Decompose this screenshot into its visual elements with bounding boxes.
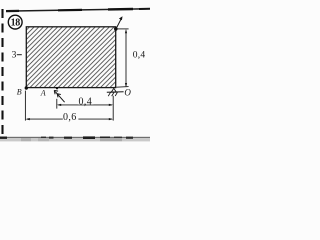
extension tick below A	[56, 99, 58, 109]
pivot dot B	[25, 86, 28, 89]
pin support at O triangle	[111, 88, 116, 92]
page top rule thick segment 2	[108, 8, 133, 11]
arrow left 0.6	[25, 118, 29, 120]
bottom page edge scan bar band	[0, 138, 150, 142]
page top rule	[6, 9, 150, 11]
pin support hatch	[108, 92, 117, 96]
value 0,6	[63, 112, 79, 123]
bottom bar dark segment 5	[83, 136, 95, 139]
svg-text:0,4: 0,4	[133, 51, 146, 61]
impact arrow chevron 1	[54, 90, 58, 94]
arrow up	[125, 29, 127, 33]
bottom bar dark segment 7	[114, 137, 122, 139]
bottom bar dark segment 3	[49, 137, 54, 139]
svg-text:O: O	[124, 88, 131, 98]
arrow right 0.6	[109, 118, 113, 120]
value 0,4 bottom	[78, 96, 94, 107]
arrow right 0.4	[109, 104, 113, 106]
svg-text:3: 3	[12, 51, 17, 61]
bottom bar smudge 2	[38, 138, 49, 141]
problem number badge circle	[8, 15, 22, 29]
corner dot top-right	[114, 27, 118, 31]
left page edge dashed line	[1, 9, 3, 137]
bottom bar smudge 1	[21, 138, 31, 141]
bottom bar dark segment 6	[100, 137, 110, 139]
force arrow at top-right corner	[116, 18, 122, 29]
bottom bar dark segment 4	[64, 137, 72, 139]
pin support base	[107, 91, 124, 94]
bottom bar dark segment 1	[0, 137, 7, 139]
extension line right bottom	[117, 86, 129, 89]
arrow down	[125, 83, 127, 87]
plate outline	[26, 27, 115, 88]
svg-text:18: 18	[11, 18, 21, 29]
extension line below O	[112, 96, 114, 121]
point A dot	[56, 87, 58, 89]
svg-text:A: A	[40, 89, 46, 98]
page top rule thick segment 1	[58, 9, 82, 12]
arrow left 0.4	[57, 104, 61, 106]
dimension line 0.4 horizontal	[58, 104, 111, 106]
leader from 3 to plate edge	[17, 54, 22, 56]
dimension line 0.6 horizontal	[27, 118, 112, 120]
extension line right top	[118, 28, 129, 30]
svg-text:0,4: 0,4	[79, 96, 93, 107]
plate hatched fill	[26, 27, 115, 88]
page top rule thick segment 0	[6, 10, 19, 12]
bottom bar dark segment 8	[126, 137, 133, 139]
page top rule thick segment 3	[139, 8, 150, 10]
force arrow head	[119, 16, 123, 20]
impact arrow shaft at A	[55, 92, 64, 103]
extension line below B	[24, 91, 26, 121]
bottom bar dark segment 2	[41, 137, 46, 139]
bottom bar top line	[0, 137, 150, 138]
bottom bar smudge 3	[100, 138, 122, 141]
dimension line 0.4 vertical	[125, 31, 127, 87]
impact arrow chevron 2	[57, 94, 61, 98]
svg-text:0,6: 0,6	[63, 112, 77, 123]
svg-text:B: B	[17, 88, 22, 97]
